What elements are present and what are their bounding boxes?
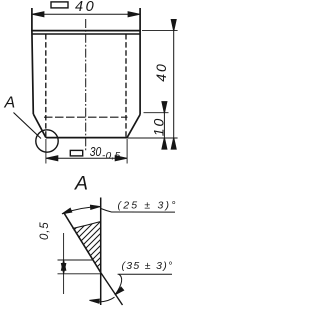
svg-text:40: 40 <box>75 0 96 15</box>
svg-text:0,5: 0,5 <box>39 222 51 240</box>
svg-text:(25 ± 3)°: (25 ± 3)° <box>118 200 178 212</box>
svg-text:A: A <box>4 94 16 111</box>
svg-text:40: 40 <box>153 62 169 82</box>
svg-text:(35 ± 3)°: (35 ± 3)° <box>122 260 174 272</box>
svg-text:10: 10 <box>150 117 166 137</box>
svg-text:-0,5: -0,5 <box>102 150 121 161</box>
svg-text:A: A <box>74 173 88 195</box>
svg-text:30: 30 <box>90 144 102 159</box>
